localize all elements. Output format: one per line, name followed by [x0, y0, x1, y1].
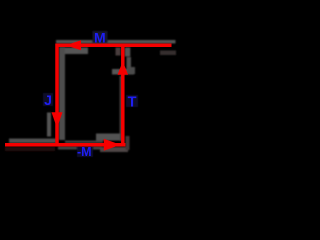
- svg-text:-M: -M: [77, 145, 92, 159]
- svg-text:M: M: [94, 29, 106, 45]
- svg-text:T: T: [128, 95, 137, 111]
- svg-text:J: J: [44, 92, 52, 108]
